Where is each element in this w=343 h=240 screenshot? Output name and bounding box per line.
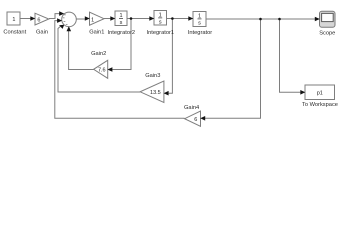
svg-text:6: 6 [37, 18, 40, 24]
junction dot to To Workspace branch [278, 18, 281, 21]
sum block Sum [62, 12, 77, 27]
svg-text:To Workspace: To Workspace [302, 102, 338, 108]
svg-text:1: 1 [91, 17, 94, 23]
arrow into Scope [315, 17, 320, 22]
svg-text:Gain: Gain [36, 30, 48, 36]
svg-text:Scope: Scope [319, 31, 335, 37]
junction dot after Integrator2 [130, 17, 133, 20]
arrow into Sum input 3 (from Gain3, diagonal) [59, 25, 64, 29]
gain Gain2 triangle [94, 60, 108, 78]
svg-text:Gain4: Gain4 [184, 105, 199, 111]
svg-text:1: 1 [12, 17, 15, 23]
to-workspace block [305, 85, 335, 100]
integrator block Integrator2 [115, 11, 127, 26]
block name labels [3, 30, 338, 111]
wire Gain2 output to Sum bottom [69, 31, 94, 70]
wire Gain to Sum [49, 14, 60, 19]
scope block Scope icon outer [320, 11, 336, 27]
gain Gain4 triangle [185, 111, 201, 126]
gain Gain triangle [35, 13, 49, 25]
wire Integrator to Scope [206, 18, 315, 20]
svg-text:s: s [159, 20, 162, 26]
svg-text:7.6: 7.6 [98, 68, 106, 74]
arrow into Integrator [188, 16, 193, 21]
arrow into Sum input 2 (from Gain4) [57, 18, 62, 23]
integrator block Integrator1 [154, 11, 167, 26]
arrowheads [30, 11, 320, 120]
arrow into Gain1 [85, 16, 90, 21]
svg-text:Integrator: Integrator [188, 30, 212, 36]
svg-text:13.5: 13.5 [150, 90, 161, 96]
gain Gain3 triangle [140, 81, 164, 103]
wire Gain3 output to Sum lower-left [58, 27, 140, 93]
junction dot to Gain4 branch [259, 18, 262, 21]
wire Constant to Gain [20, 18, 31, 20]
svg-text:Constant: Constant [3, 30, 26, 36]
wire branch down to Gain4 [205, 19, 261, 118]
wire Integrator1 to Integrator [167, 18, 189, 20]
svg-text:6: 6 [194, 117, 197, 123]
wire Sum to Gain1 [76, 18, 85, 20]
wire Integrator2 to Integrator1 [127, 18, 150, 20]
constant block Constant [7, 12, 20, 25]
arrow into Sum input 1 (from Gain) [59, 11, 64, 16]
wire branch Integrator1 output down to Gain3 [169, 19, 173, 94]
arrow into Integrator1 [149, 16, 154, 21]
svg-text:p1: p1 [317, 90, 323, 96]
wire branch down to To Workspace [280, 19, 301, 92]
scope screen [322, 13, 334, 21]
arrow into Integrator2 [110, 16, 115, 21]
arrow into Gain2 (pointing left) [107, 67, 112, 72]
wire Gain1 to Integrator2 [104, 18, 111, 20]
svg-text:s: s [198, 21, 201, 27]
svg-text:Gain3: Gain3 [145, 73, 160, 79]
svg-text:Integrator2: Integrator2 [108, 30, 136, 36]
arrow into Sum input 4 (from Gain2, bottom) [67, 26, 72, 31]
arrow into To Workspace [300, 90, 305, 95]
svg-text:s: s [120, 20, 123, 26]
arrow into Gain [30, 16, 35, 21]
gain Gain1 triangle [90, 12, 105, 25]
sum signs [63, 15, 68, 26]
wire branch Integrator2 output down to Gain2 [112, 19, 131, 70]
integrator block Integrator [193, 12, 206, 27]
svg-text:Integrator1: Integrator1 [147, 30, 175, 36]
arrow into Gain4 (pointing left) [200, 116, 205, 121]
wire Gain4 output to Sum left [55, 21, 185, 119]
block value texts [12, 13, 322, 123]
svg-text:Gain2: Gain2 [91, 51, 106, 57]
junction dot after Integrator1 [171, 17, 174, 20]
arrow into Gain3 (pointing left) [164, 91, 169, 96]
svg-text:Gain1: Gain1 [89, 30, 104, 36]
